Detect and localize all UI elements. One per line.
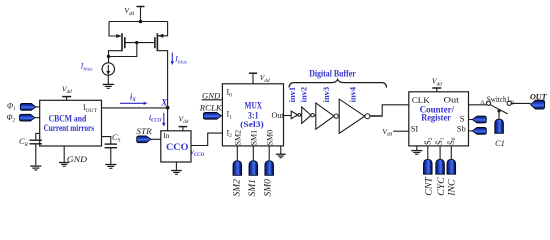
svg-text:OUT: OUT [530, 91, 547, 101]
block Counter/Register [409, 92, 469, 146]
block MUX 3:1 [222, 84, 284, 146]
svg-text:GND: GND [202, 91, 221, 101]
wire Counter Out to switch [469, 104, 487, 106]
svg-text:CCO: CCO [166, 143, 189, 153]
capacitor CS [105, 144, 117, 148]
port SM0 pin [265, 161, 274, 176]
label iCCO [149, 113, 166, 127]
wire counter ground stem [416, 146, 418, 151]
pin S1bar label [434, 137, 445, 145]
port STR flag [137, 136, 151, 143]
junction (Vdd stem to rail) [139, 20, 143, 24]
svg-text:In: In [163, 131, 169, 140]
capacitor CR [30, 140, 42, 144]
svg-text:Register: Register [421, 113, 451, 123]
port PHI2 flag [20, 114, 36, 121]
transistor M1 (left, diode-connected) [116, 33, 125, 51]
svg-text:Ibias: Ibias [174, 54, 187, 66]
wire PHI1 to block [36, 106, 40, 108]
svg-text:STR: STR [136, 127, 151, 136]
svg-text:CNT: CNT [423, 176, 434, 196]
svg-text:Vdd: Vdd [432, 77, 442, 88]
svg-text:iX: iX [130, 92, 136, 103]
power Vdd (top mirror) [124, 6, 144, 21]
wire vCCO (CCO out to MUX I2) [191, 133, 222, 145]
wire Ibias to ground [107, 75, 109, 84]
port INC pin [447, 159, 456, 174]
inverter inv2 [299, 87, 315, 124]
wire CYC stub [439, 146, 441, 160]
node X [160, 97, 169, 109]
power Vdd (Counter) [432, 77, 442, 92]
wire CS to block [102, 137, 111, 144]
pin S0bar label [446, 137, 457, 145]
ground (MUX) [276, 154, 286, 158]
wire CR to ground [35, 144, 37, 166]
current source Ibias [102, 63, 114, 75]
junction (C1 tap on lever) [497, 109, 500, 112]
svg-text:A: A [480, 100, 485, 106]
port CNT pin [424, 159, 433, 174]
inverter inv3 [316, 87, 339, 129]
svg-text:vCCO: vCCO [191, 147, 205, 158]
wire PHI2 to block [35, 117, 40, 119]
ground (CR) [30, 166, 41, 170]
svg-text:SI: SI [411, 124, 419, 134]
svg-text:Sb: Sb [457, 123, 466, 133]
svg-text:X: X [160, 97, 168, 107]
svg-text:inv2: inv2 [299, 87, 309, 103]
ground (CCO) [171, 171, 182, 175]
switch Switch1 [480, 94, 514, 114]
wire M2 drain down to node X and CCO In [157, 51, 167, 131]
svg-text:Vdd: Vdd [62, 84, 72, 95]
wire Vdd to SI [393, 130, 409, 132]
block CCO [161, 131, 191, 162]
svg-text:inv4: inv4 [348, 86, 358, 102]
wire M2 source to rail [158, 22, 168, 36]
svg-text:Vdd: Vdd [179, 114, 189, 125]
wire M1 drain to node [109, 51, 123, 63]
power Vdd (CBCM) [62, 84, 72, 100]
svg-text:SM1: SM1 [249, 130, 258, 146]
wire MUX SM1 stub [252, 146, 254, 161]
power Vdd (CCO) [179, 114, 189, 130]
svg-text:SM0: SM0 [264, 179, 274, 197]
svg-text:CBCM and: CBCM and [49, 114, 87, 124]
svg-text:SM1: SM1 [248, 179, 258, 196]
wire INC stub [450, 146, 452, 160]
svg-text:inv3: inv3 [321, 87, 331, 103]
wire GND stem (CBCM) [63, 146, 65, 162]
svg-text:MUX: MUX [245, 101, 263, 111]
svg-text:Current mirrors: Current mirrors [44, 123, 95, 133]
wire diode connection [109, 43, 137, 57]
wire C1 stub [498, 111, 500, 119]
power Vdd (MUX) [249, 73, 270, 84]
svg-text:SM2: SM2 [234, 130, 243, 146]
port RCLK flag [203, 112, 221, 119]
wire RCLK to I1 [221, 115, 222, 117]
inverter inv1 [287, 87, 301, 119]
wire MUX ground stem [280, 146, 282, 154]
wire inv4 out to Counter CLK [370, 105, 409, 116]
wire Sb to flag [469, 130, 473, 132]
capacitor C1 pin [495, 119, 504, 133]
wire S to flag [469, 119, 473, 121]
wire switch B to OUT [511, 102, 530, 104]
port OUT flag [531, 100, 545, 109]
wire GND to I0 [202, 99, 223, 101]
brace (Digital Buffer) [289, 79, 387, 87]
label Ibias (mirror output current, blue arrow) [171, 53, 188, 66]
wire M1 source drop [109, 22, 117, 37]
pin S2bar label [423, 137, 434, 145]
ground GND (below CBCM) [59, 154, 88, 166]
svg-text:SM0: SM0 [265, 130, 274, 146]
wire MUX SM0 stub [268, 146, 270, 161]
port Sb flag [472, 128, 486, 135]
port SM2 pin [233, 161, 242, 176]
port S flag [472, 116, 486, 123]
wire CNT stub [427, 146, 429, 160]
port PHI1 flag [20, 104, 36, 111]
wire CR to block [36, 133, 40, 140]
svg-text:Vdd: Vdd [260, 73, 270, 84]
wire gate bus M1-M2 [125, 42, 155, 44]
port SM1 pin [249, 161, 258, 176]
svg-text:Φ1: Φ1 [7, 101, 16, 112]
wire Vdd rail [109, 21, 168, 23]
svg-text:S: S [460, 114, 465, 124]
svg-text:Out: Out [444, 95, 460, 105]
label iX [120, 92, 148, 105]
svg-text:CS: CS [112, 132, 121, 144]
svg-text:iCCO: iCCO [149, 113, 162, 124]
port CYC pin [436, 159, 445, 174]
svg-text:CR: CR [19, 136, 29, 148]
transistor M2 (right mirror) [155, 33, 164, 51]
svg-text:Digital Buffer: Digital Buffer [309, 70, 356, 80]
svg-text:Ibias: Ibias [80, 61, 93, 73]
svg-text:Vdd: Vdd [124, 6, 134, 17]
block CBCM and Current mirrors [40, 100, 102, 146]
svg-text:(Sel3): (Sel3) [240, 119, 264, 129]
wire CS to ground [110, 148, 112, 165]
svg-text:RCLK: RCLK [199, 102, 223, 112]
ground (Counter) [411, 151, 422, 155]
wire buffer internal [291, 115, 382, 117]
svg-text:CLK: CLK [412, 95, 431, 105]
junction (M1 drain node) [107, 55, 110, 58]
svg-text:inv1: inv1 [287, 87, 297, 103]
svg-text:CYC: CYC [436, 177, 447, 196]
wire STR to CCO [151, 138, 161, 140]
ground (CS) [105, 165, 116, 169]
svg-text:Vdd: Vdd [382, 127, 392, 138]
ground (below Ibias) [103, 84, 114, 88]
wire CCO ground stem [175, 162, 177, 170]
svg-text:INC: INC [447, 179, 458, 197]
svg-text:C1: C1 [495, 138, 505, 148]
junction (gate bus) [135, 41, 138, 44]
wire MUX SM2 stub [236, 146, 238, 161]
svg-text:Out: Out [272, 111, 285, 120]
wire MUX Out to buffer input [284, 115, 292, 117]
svg-text:Φ2: Φ2 [7, 113, 16, 124]
wire iX (CBCM IOUT to node X) [102, 107, 168, 109]
svg-text:GND: GND [67, 154, 88, 164]
svg-text:SM2: SM2 [233, 179, 243, 197]
inverter inv4 [339, 86, 370, 133]
